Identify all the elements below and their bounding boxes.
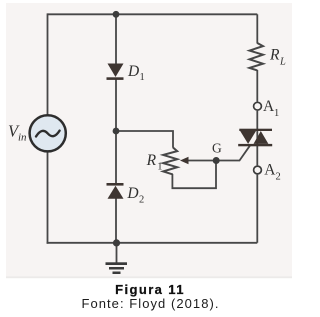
svg-text:R: R (269, 47, 280, 64)
svg-text:1: 1 (157, 162, 162, 173)
svg-text:1: 1 (274, 108, 279, 119)
svg-text:Figura 11: Figura 11 (115, 282, 185, 297)
svg-text:2: 2 (139, 194, 144, 205)
svg-text:2: 2 (276, 171, 281, 182)
svg-text:in: in (18, 132, 27, 144)
svg-text:L: L (279, 57, 286, 68)
svg-text:A: A (264, 162, 276, 179)
svg-text:G: G (212, 141, 222, 156)
svg-text:D: D (127, 63, 139, 80)
svg-text:R: R (146, 152, 157, 169)
svg-text:Fonte: Floyd (2018).: Fonte: Floyd (2018). (81, 296, 219, 311)
svg-text:D: D (126, 185, 138, 202)
svg-text:1: 1 (140, 72, 145, 83)
